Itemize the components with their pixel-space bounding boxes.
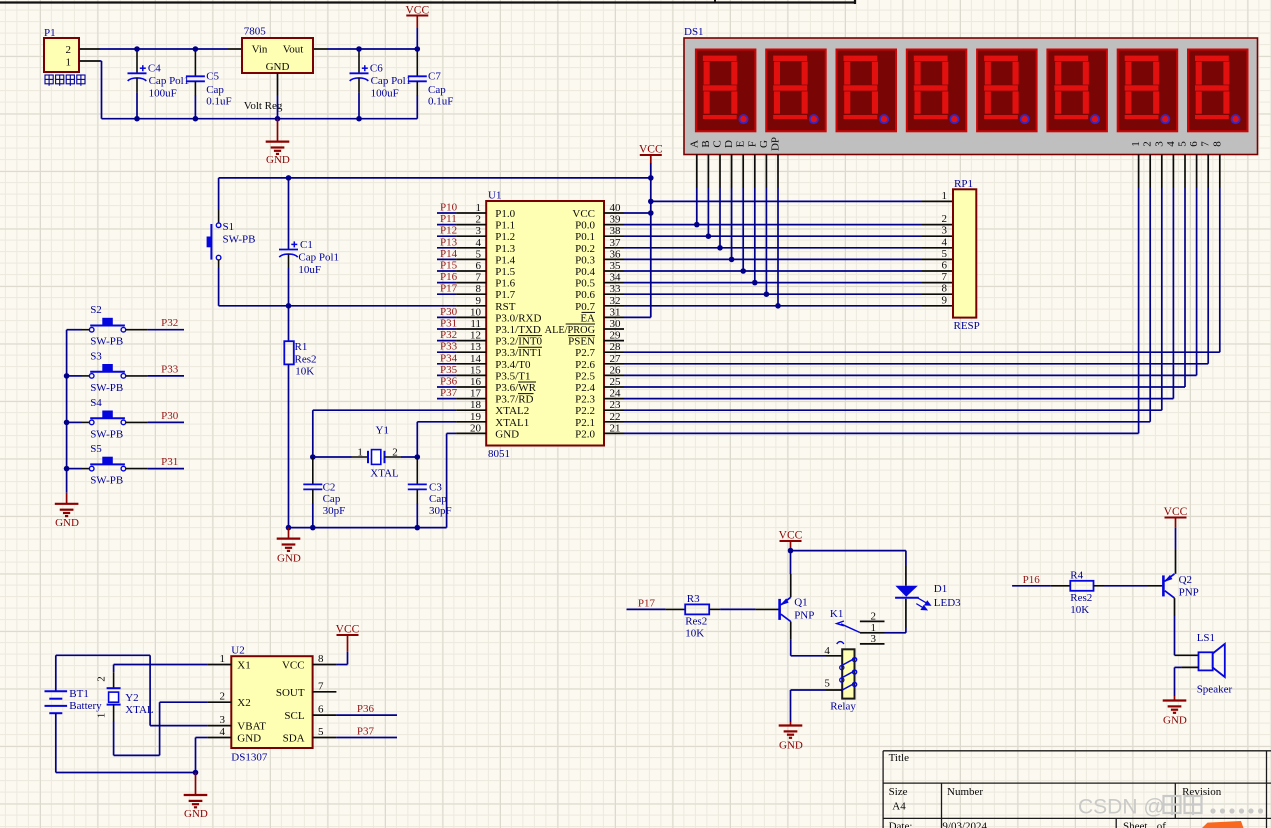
svg-text:U1: U1 bbox=[488, 190, 501, 202]
svg-text:GND: GND bbox=[237, 733, 261, 745]
svg-text:2: 2 bbox=[942, 213, 948, 225]
svg-text:100uF: 100uF bbox=[371, 87, 399, 99]
svg-text:8: 8 bbox=[1211, 141, 1223, 147]
svg-text:P30: P30 bbox=[440, 306, 458, 318]
svg-text:XTAL1: XTAL1 bbox=[495, 417, 529, 429]
svg-text:20: 20 bbox=[470, 422, 482, 434]
svg-text:9: 9 bbox=[942, 294, 948, 306]
svg-text:BT1: BT1 bbox=[69, 688, 89, 700]
svg-text:SOUT: SOUT bbox=[276, 687, 305, 699]
svg-text:XTAL2: XTAL2 bbox=[495, 405, 529, 417]
svg-text:7: 7 bbox=[318, 680, 324, 692]
svg-text:EA: EA bbox=[580, 312, 595, 324]
svg-text:PNP: PNP bbox=[1179, 587, 1199, 599]
svg-text:CSDN @: CSDN @ bbox=[1078, 796, 1165, 819]
svg-text:P0.7: P0.7 bbox=[575, 301, 595, 313]
svg-text:C: C bbox=[712, 140, 724, 147]
svg-text:G: G bbox=[758, 140, 770, 148]
svg-text:P16: P16 bbox=[1023, 574, 1041, 586]
svg-text:37: 37 bbox=[610, 237, 622, 249]
svg-text:S5: S5 bbox=[90, 443, 102, 455]
svg-text:P12: P12 bbox=[440, 225, 457, 237]
svg-text:VCC: VCC bbox=[336, 624, 360, 636]
svg-text:DP: DP bbox=[770, 137, 782, 151]
svg-text:SW-PB: SW-PB bbox=[90, 475, 123, 487]
svg-text:P14: P14 bbox=[440, 248, 458, 260]
svg-text:P2.0: P2.0 bbox=[575, 428, 595, 440]
svg-text:P30: P30 bbox=[161, 410, 179, 422]
svg-text:P32: P32 bbox=[161, 317, 178, 329]
svg-text:PNP: PNP bbox=[794, 610, 814, 622]
svg-text:P3.5/T1: P3.5/T1 bbox=[495, 370, 530, 382]
svg-text:P35: P35 bbox=[440, 364, 458, 376]
svg-text:6: 6 bbox=[318, 704, 324, 716]
svg-text:1: 1 bbox=[476, 202, 482, 214]
svg-text:GND: GND bbox=[184, 808, 208, 820]
svg-text:Speaker: Speaker bbox=[1197, 684, 1233, 696]
svg-text:3: 3 bbox=[220, 714, 226, 726]
svg-text:P3.7/RD: P3.7/RD bbox=[495, 394, 533, 406]
svg-text:C5: C5 bbox=[206, 70, 219, 82]
svg-text:LS1: LS1 bbox=[1197, 632, 1215, 644]
svg-text:38: 38 bbox=[610, 225, 622, 237]
svg-text:LED3: LED3 bbox=[934, 597, 961, 609]
svg-text:12: 12 bbox=[470, 330, 481, 342]
svg-text:DS1307: DS1307 bbox=[231, 752, 268, 764]
svg-text:C4: C4 bbox=[148, 63, 161, 75]
svg-text:P34: P34 bbox=[440, 352, 458, 364]
svg-text:P31: P31 bbox=[161, 456, 178, 468]
svg-text:P0.3: P0.3 bbox=[575, 254, 595, 266]
svg-text:S2: S2 bbox=[90, 304, 102, 316]
svg-text:9/03/2024: 9/03/2024 bbox=[942, 821, 987, 828]
svg-text:P1.5: P1.5 bbox=[495, 266, 515, 278]
svg-text:R1: R1 bbox=[295, 341, 308, 353]
svg-text:23: 23 bbox=[610, 399, 622, 411]
svg-text:P3.2/INT0: P3.2/INT0 bbox=[495, 336, 542, 348]
svg-text:1: 1 bbox=[220, 653, 226, 665]
svg-text:33: 33 bbox=[610, 283, 622, 295]
svg-text:GND: GND bbox=[1163, 715, 1187, 727]
svg-text:Vin: Vin bbox=[252, 44, 268, 56]
svg-text:S1: S1 bbox=[223, 221, 235, 233]
svg-text:P1.2: P1.2 bbox=[495, 231, 515, 243]
svg-text:P1.0: P1.0 bbox=[495, 208, 515, 220]
svg-text:P32: P32 bbox=[440, 329, 457, 341]
svg-text:28: 28 bbox=[610, 341, 622, 353]
svg-text:P37: P37 bbox=[357, 726, 375, 738]
svg-text:Battery: Battery bbox=[69, 700, 102, 712]
svg-text:Size: Size bbox=[889, 786, 908, 798]
svg-text:GND: GND bbox=[779, 740, 803, 752]
svg-text:0.1uF: 0.1uF bbox=[428, 96, 453, 108]
svg-text:Date:: Date: bbox=[889, 821, 913, 828]
svg-text:P3.1/TXD: P3.1/TXD bbox=[495, 324, 541, 336]
svg-text:X1: X1 bbox=[237, 660, 250, 672]
svg-text:VCC: VCC bbox=[1164, 506, 1188, 518]
svg-text:A4: A4 bbox=[892, 801, 906, 813]
svg-text:4: 4 bbox=[476, 237, 482, 249]
svg-text:2: 2 bbox=[392, 446, 398, 458]
svg-text:B: B bbox=[700, 140, 712, 147]
svg-text:P0.2: P0.2 bbox=[575, 243, 595, 255]
svg-text:P0.0: P0.0 bbox=[575, 220, 595, 232]
svg-text:7: 7 bbox=[942, 271, 948, 283]
svg-text:40: 40 bbox=[610, 202, 622, 214]
svg-text:SW-PB: SW-PB bbox=[223, 233, 256, 245]
svg-text:10uF: 10uF bbox=[298, 264, 321, 276]
svg-text:D: D bbox=[723, 140, 735, 148]
svg-text:VCC: VCC bbox=[779, 530, 803, 542]
svg-text:P15: P15 bbox=[440, 260, 458, 272]
svg-text:P2.5: P2.5 bbox=[575, 370, 595, 382]
svg-text:Sheet: Sheet bbox=[1123, 821, 1147, 828]
svg-text:P1.3: P1.3 bbox=[495, 243, 515, 255]
svg-text:SCL: SCL bbox=[284, 710, 304, 722]
svg-text:8: 8 bbox=[942, 283, 948, 295]
svg-text:R4: R4 bbox=[1070, 570, 1083, 582]
svg-text:Res2: Res2 bbox=[1070, 592, 1092, 604]
svg-text:Cap: Cap bbox=[323, 493, 341, 505]
svg-text:Cap: Cap bbox=[429, 493, 447, 505]
svg-text:25: 25 bbox=[610, 376, 622, 388]
svg-text:31: 31 bbox=[610, 306, 621, 318]
svg-text:F: F bbox=[746, 141, 758, 147]
svg-text:RESP: RESP bbox=[954, 320, 980, 332]
svg-text:30pF: 30pF bbox=[323, 505, 346, 517]
svg-text:P1.6: P1.6 bbox=[495, 278, 515, 290]
svg-text:P2.7: P2.7 bbox=[575, 347, 595, 359]
svg-text:15: 15 bbox=[470, 364, 482, 376]
svg-text:P0.1: P0.1 bbox=[575, 231, 595, 243]
svg-text:9: 9 bbox=[476, 295, 482, 307]
svg-text:GND: GND bbox=[266, 154, 290, 166]
svg-text:P36: P36 bbox=[440, 376, 458, 388]
svg-text:VCC: VCC bbox=[639, 144, 663, 156]
svg-text:6: 6 bbox=[1188, 141, 1200, 147]
svg-text:3: 3 bbox=[476, 225, 482, 237]
svg-text:4: 4 bbox=[220, 726, 226, 738]
svg-text:7: 7 bbox=[476, 272, 482, 284]
svg-text:P17: P17 bbox=[440, 283, 458, 295]
svg-text:C7: C7 bbox=[428, 70, 441, 82]
svg-text:P36: P36 bbox=[357, 703, 375, 715]
svg-text:RP1: RP1 bbox=[954, 178, 973, 190]
svg-text:P3.0/RXD: P3.0/RXD bbox=[495, 312, 541, 324]
svg-text:Cap: Cap bbox=[428, 84, 446, 96]
svg-text:D1: D1 bbox=[934, 583, 947, 595]
svg-text:34: 34 bbox=[610, 272, 622, 284]
svg-text:P0.5: P0.5 bbox=[575, 278, 595, 290]
svg-text:P2.2: P2.2 bbox=[575, 405, 595, 417]
svg-text:2: 2 bbox=[220, 691, 226, 703]
svg-text:5: 5 bbox=[942, 248, 948, 260]
svg-text:Res2: Res2 bbox=[295, 354, 317, 366]
svg-text:GND: GND bbox=[55, 517, 79, 529]
svg-text:SDA: SDA bbox=[283, 733, 305, 745]
svg-text:P2.4: P2.4 bbox=[575, 382, 595, 394]
svg-text:30pF: 30pF bbox=[429, 505, 452, 517]
svg-text:P33: P33 bbox=[440, 341, 458, 353]
svg-text:VCC: VCC bbox=[282, 660, 305, 672]
svg-text:1: 1 bbox=[942, 190, 948, 202]
svg-text:2: 2 bbox=[871, 610, 877, 622]
svg-text:DS1: DS1 bbox=[684, 26, 704, 38]
svg-text:16: 16 bbox=[470, 376, 482, 388]
svg-text:10: 10 bbox=[470, 306, 482, 318]
svg-text:P1.4: P1.4 bbox=[495, 254, 515, 266]
svg-text:10K: 10K bbox=[1070, 604, 1089, 616]
svg-text:P3.3/INT1: P3.3/INT1 bbox=[495, 347, 542, 359]
svg-text:C3: C3 bbox=[429, 482, 442, 494]
svg-text:100uF: 100uF bbox=[149, 87, 177, 99]
svg-text:PSEN: PSEN bbox=[568, 336, 595, 348]
svg-text:P1.1: P1.1 bbox=[495, 220, 515, 232]
svg-text:Cap Pol1: Cap Pol1 bbox=[149, 75, 190, 87]
svg-text:30: 30 bbox=[610, 318, 622, 330]
svg-text:RST: RST bbox=[495, 301, 515, 313]
svg-text:ALE/PROG: ALE/PROG bbox=[545, 325, 596, 336]
svg-text:P13: P13 bbox=[440, 236, 458, 248]
svg-text:P1: P1 bbox=[44, 27, 56, 39]
svg-text:GND: GND bbox=[495, 428, 519, 440]
svg-text:GND: GND bbox=[277, 553, 301, 565]
svg-text:5: 5 bbox=[824, 678, 830, 690]
svg-text:24: 24 bbox=[610, 388, 622, 400]
svg-text:P31: P31 bbox=[440, 318, 457, 330]
svg-text:C2: C2 bbox=[323, 482, 336, 494]
svg-text:P3.6/WR: P3.6/WR bbox=[495, 382, 536, 394]
svg-text:Q1: Q1 bbox=[794, 597, 807, 609]
svg-text:1: 1 bbox=[1130, 141, 1142, 147]
svg-text:8: 8 bbox=[476, 283, 482, 295]
svg-text:5: 5 bbox=[1177, 141, 1189, 147]
svg-text:19: 19 bbox=[470, 411, 482, 423]
svg-text:0.1uF: 0.1uF bbox=[206, 96, 231, 108]
svg-text:8: 8 bbox=[318, 653, 324, 665]
svg-text:22: 22 bbox=[610, 411, 621, 423]
svg-text:P2.6: P2.6 bbox=[575, 359, 595, 371]
svg-text:36: 36 bbox=[610, 248, 622, 260]
svg-text:VBAT: VBAT bbox=[237, 721, 266, 733]
svg-text:Res2: Res2 bbox=[685, 616, 707, 628]
svg-text:P2.3: P2.3 bbox=[575, 394, 595, 406]
svg-text:P0.6: P0.6 bbox=[575, 289, 595, 301]
svg-text:P2.1: P2.1 bbox=[575, 417, 595, 429]
svg-text:2: 2 bbox=[1142, 141, 1154, 147]
svg-text:1: 1 bbox=[66, 57, 72, 69]
svg-text:C6: C6 bbox=[370, 63, 383, 75]
svg-text:P10: P10 bbox=[440, 202, 458, 214]
svg-text:Relay: Relay bbox=[830, 701, 856, 713]
svg-text:SW-PB: SW-PB bbox=[90, 336, 123, 348]
svg-text:5: 5 bbox=[476, 248, 482, 260]
svg-text:U2: U2 bbox=[231, 645, 244, 657]
svg-text:Title: Title bbox=[889, 752, 910, 764]
svg-text:8051: 8051 bbox=[488, 448, 510, 460]
svg-text:Cap Pol1: Cap Pol1 bbox=[298, 252, 339, 264]
svg-text:27: 27 bbox=[610, 353, 622, 365]
svg-text:3: 3 bbox=[942, 225, 948, 237]
svg-text:P17: P17 bbox=[638, 598, 656, 610]
svg-text:1: 1 bbox=[96, 713, 108, 719]
svg-text:XTAL: XTAL bbox=[370, 468, 399, 480]
svg-text:2: 2 bbox=[66, 44, 72, 56]
svg-text:SW-PB: SW-PB bbox=[90, 428, 123, 440]
svg-text:P11: P11 bbox=[440, 213, 457, 225]
svg-text:Number: Number bbox=[947, 786, 983, 798]
svg-text:2: 2 bbox=[476, 214, 482, 226]
svg-text:P3.4/T0: P3.4/T0 bbox=[495, 359, 531, 371]
svg-text:29: 29 bbox=[610, 330, 622, 342]
svg-text:4: 4 bbox=[942, 236, 948, 248]
svg-text:P16: P16 bbox=[440, 271, 458, 283]
svg-text:Vout: Vout bbox=[283, 44, 304, 56]
svg-text:5: 5 bbox=[318, 726, 324, 738]
svg-text:GND: GND bbox=[266, 61, 290, 73]
svg-text:K1: K1 bbox=[830, 608, 843, 620]
svg-text:P37: P37 bbox=[440, 387, 458, 399]
svg-text:18: 18 bbox=[470, 399, 482, 411]
svg-text:10K: 10K bbox=[295, 366, 314, 378]
svg-text:4: 4 bbox=[824, 645, 830, 657]
svg-text:39: 39 bbox=[610, 214, 622, 226]
svg-text:VCC: VCC bbox=[572, 208, 595, 220]
svg-text:6: 6 bbox=[476, 260, 482, 272]
svg-text:P1.7: P1.7 bbox=[495, 289, 515, 301]
svg-text:S3: S3 bbox=[90, 350, 102, 362]
svg-text:Cap Pol1: Cap Pol1 bbox=[371, 75, 412, 87]
svg-text:SW-PB: SW-PB bbox=[90, 382, 123, 394]
svg-text:35: 35 bbox=[610, 260, 622, 272]
svg-text:3: 3 bbox=[1153, 141, 1165, 147]
svg-text:14: 14 bbox=[470, 353, 482, 365]
svg-text:10K: 10K bbox=[685, 628, 704, 640]
svg-text:6: 6 bbox=[942, 260, 948, 272]
svg-text:21: 21 bbox=[610, 422, 621, 434]
svg-text:Y2: Y2 bbox=[125, 692, 138, 704]
svg-text:R3: R3 bbox=[687, 593, 700, 605]
svg-text:26: 26 bbox=[610, 364, 622, 376]
svg-text:S4: S4 bbox=[90, 397, 102, 409]
svg-text:11: 11 bbox=[470, 318, 481, 330]
svg-text:32: 32 bbox=[610, 295, 621, 307]
svg-text:Cap: Cap bbox=[206, 84, 224, 96]
svg-text:P33: P33 bbox=[161, 363, 179, 375]
svg-text:C1: C1 bbox=[300, 239, 313, 251]
svg-text:of: of bbox=[1157, 821, 1167, 828]
svg-text:Y1: Y1 bbox=[376, 425, 389, 437]
svg-text:Q2: Q2 bbox=[1179, 574, 1192, 586]
svg-text:4: 4 bbox=[1165, 141, 1177, 147]
svg-text:1: 1 bbox=[357, 446, 363, 458]
svg-text:2: 2 bbox=[96, 676, 108, 682]
svg-text:E: E bbox=[735, 140, 747, 147]
svg-text:X2: X2 bbox=[237, 697, 250, 709]
svg-text:7805: 7805 bbox=[244, 26, 266, 38]
svg-text:7: 7 bbox=[1200, 141, 1212, 147]
svg-text:13: 13 bbox=[470, 341, 482, 353]
svg-text:17: 17 bbox=[470, 388, 482, 400]
svg-text:3: 3 bbox=[871, 633, 877, 645]
svg-text:P0.4: P0.4 bbox=[575, 266, 595, 278]
svg-text:A: A bbox=[688, 140, 700, 148]
